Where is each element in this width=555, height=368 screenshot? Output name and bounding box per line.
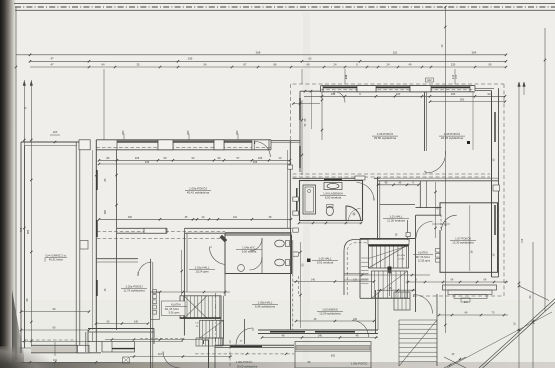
- svg-text:62: 62: [308, 57, 312, 61]
- svg-text:40,31 beton: 40,31 beton: [49, 258, 64, 262]
- svg-text:90: 90: [489, 62, 492, 66]
- svg-text:110: 110: [393, 50, 398, 54]
- svg-text:307: 307: [158, 353, 163, 356]
- svg-text:110: 110: [233, 216, 238, 219]
- svg-text:852: 852: [122, 130, 125, 135]
- svg-text:29,50 wykładzina: 29,50 wykładzina: [374, 136, 397, 140]
- svg-text:602: 602: [331, 355, 336, 358]
- svg-text:240: 240: [353, 318, 358, 321]
- svg-text:E13: E13: [345, 74, 348, 79]
- svg-text:230: 230: [396, 92, 401, 96]
- svg-text:10X: 10X: [53, 130, 58, 134]
- svg-text:47: 47: [50, 57, 54, 61]
- svg-text:KLATKA: KLATKA: [418, 251, 428, 255]
- svg-text:R2_05 SCH.: R2_05 SCH.: [165, 307, 180, 311]
- svg-text:11,00 terakota: 11,00 terakota: [387, 219, 405, 223]
- svg-text:24: 24: [387, 62, 390, 66]
- svg-text:KLATKA: KLATKA: [171, 303, 181, 307]
- svg-text:19,90 wykładzina: 19,90 wykładzina: [237, 365, 258, 368]
- svg-text:360: 360: [460, 97, 465, 101]
- svg-text:496: 496: [253, 160, 258, 164]
- svg-text:235: 235: [258, 156, 263, 160]
- svg-text:24: 24: [334, 62, 337, 66]
- svg-text:235: 235: [135, 156, 140, 160]
- svg-text:35: 35: [137, 62, 140, 66]
- svg-text:86: 86: [274, 62, 277, 66]
- svg-text:11,76 wykładzina: 11,76 wykładzina: [123, 289, 145, 293]
- svg-text:140: 140: [134, 320, 139, 323]
- svg-text:230: 230: [331, 92, 336, 96]
- svg-text:268: 268: [256, 50, 261, 54]
- svg-text:17x18: 17x18: [398, 259, 405, 261]
- svg-text:22,25 wykładzina: 22,25 wykładzina: [441, 136, 464, 140]
- svg-text:54: 54: [204, 62, 207, 66]
- svg-text:45,41 wykładzina: 45,41 wykładzina: [187, 191, 210, 195]
- svg-text:R1 SCH: R1 SCH: [397, 255, 405, 257]
- svg-text:40: 40: [307, 62, 310, 66]
- svg-text:12,55 gres: 12,55 gres: [418, 259, 431, 263]
- svg-text:10,24 gres: 10,24 gres: [195, 270, 209, 274]
- svg-text:E17: E17: [464, 301, 469, 304]
- svg-text:6,96 wykładzina: 6,96 wykładzina: [255, 305, 275, 309]
- svg-text:6,50 toaleta: 6,50 toaleta: [242, 250, 257, 254]
- svg-text:12,30 wykładzina: 12,30 wykładzina: [452, 241, 474, 245]
- svg-text:240: 240: [318, 334, 323, 337]
- svg-text:9,91 terakota: 9,91 terakota: [317, 261, 334, 265]
- svg-text:485: 485: [104, 209, 107, 214]
- svg-text:E12: E12: [427, 80, 432, 82]
- svg-text:64: 64: [102, 62, 105, 66]
- svg-text:852: 852: [236, 130, 239, 135]
- svg-text:195: 195: [188, 57, 193, 61]
- svg-text:230: 230: [451, 62, 456, 66]
- svg-text:300: 300: [128, 216, 133, 219]
- svg-text:230: 230: [451, 92, 456, 96]
- svg-text:5,36 gres: 5,36 gres: [169, 311, 181, 315]
- svg-text:140: 140: [311, 278, 316, 281]
- svg-text:47: 47: [50, 62, 54, 66]
- svg-text:12,09 wykładzina: 12,09 wykładzina: [319, 312, 341, 316]
- svg-text:6,50 terakota: 6,50 terakota: [325, 196, 342, 200]
- svg-text:MY 26 SCH.: MY 26 SCH.: [416, 255, 431, 259]
- svg-text:264: 264: [472, 50, 477, 54]
- svg-text:E15: E15: [452, 74, 455, 79]
- svg-text:435: 435: [145, 160, 150, 164]
- svg-text:120: 120: [353, 278, 358, 281]
- svg-text:852: 852: [187, 130, 190, 135]
- svg-text:585: 585: [26, 229, 30, 234]
- svg-text:87: 87: [244, 62, 247, 66]
- svg-text:40: 40: [409, 62, 412, 66]
- svg-text:716: 716: [520, 238, 524, 243]
